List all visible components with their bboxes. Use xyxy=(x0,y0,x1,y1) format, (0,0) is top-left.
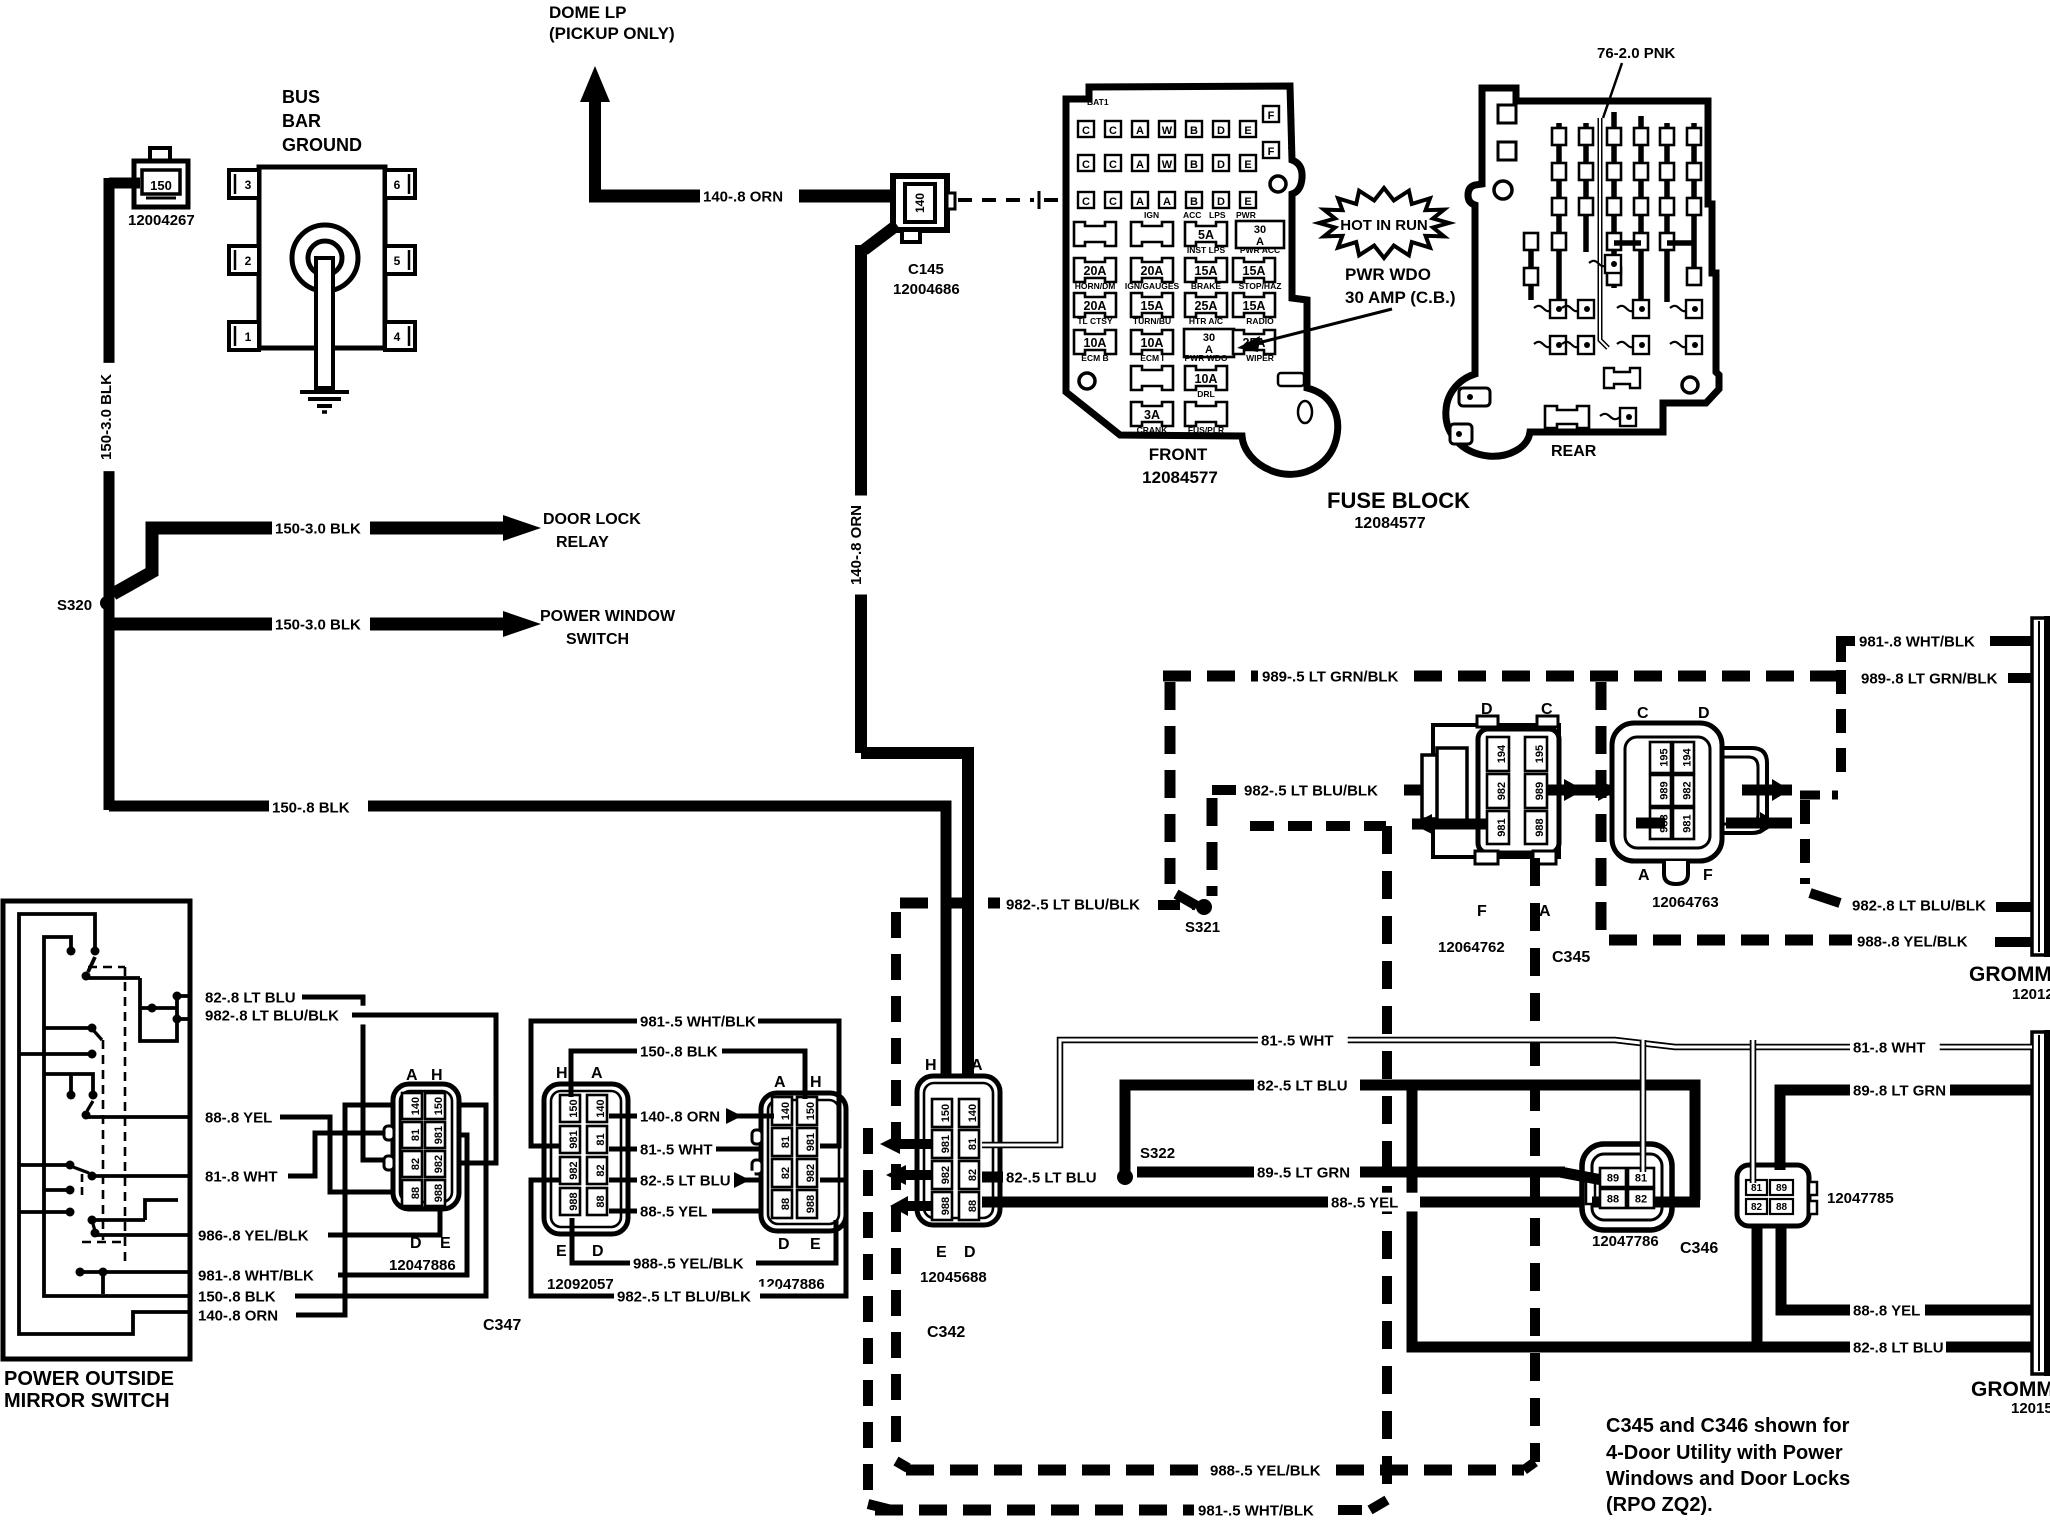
svg-text:Windows and Door Locks: Windows and Door Locks xyxy=(1606,1468,1850,1490)
label 89-.8 LT GRN xyxy=(1850,1081,1968,1100)
cell 981 12064762 xyxy=(1487,811,1509,844)
rear fuse clip c5r2 xyxy=(1634,163,1648,180)
cell 82 C346 xyxy=(1628,1189,1654,1208)
svg-text:982-.5 LT BLU/BLK: 982-.5 LT BLU/BLK xyxy=(1006,896,1140,913)
svg-text:82: 82 xyxy=(595,1164,607,1176)
wire 982-.5 LT BLU/BLK mid xyxy=(531,1180,614,1296)
svg-text:E: E xyxy=(556,1243,567,1260)
bus bar ground component body xyxy=(259,167,385,348)
svg-text:TL CTSY: TL CTSY xyxy=(1077,316,1113,326)
rear fuse clip c3r2 xyxy=(1579,163,1593,180)
cell 982 12064762 xyxy=(1487,774,1509,808)
svg-text:HTR A/C: HTR A/C xyxy=(1189,316,1223,326)
mirror switch contacts cluster 3 xyxy=(44,1074,93,1091)
svg-text:981-.5 WHT/BLK: 981-.5 WHT/BLK xyxy=(640,1013,756,1030)
rear fuse clip c4r1 xyxy=(1607,128,1621,145)
svg-text:A: A xyxy=(1539,903,1551,920)
svg-text:4: 4 xyxy=(394,330,401,344)
rear fuse clip c2r1 xyxy=(1552,128,1566,145)
svg-text:988: 988 xyxy=(805,1195,817,1213)
svg-text:81: 81 xyxy=(595,1133,607,1145)
label 150-3.0 BLK branch 1 xyxy=(272,519,380,538)
svg-text:30 AMP (C.B.): 30 AMP (C.B.) xyxy=(1345,288,1456,307)
rear fuse clip c4r2 xyxy=(1607,163,1621,180)
bus bar pin 6 xyxy=(385,170,415,198)
svg-text:D: D xyxy=(410,1235,422,1252)
dashed wire 989 top line xyxy=(1163,671,1258,682)
fuse block FRONT 12084577 outline xyxy=(1066,86,1338,474)
svg-text:BUS: BUS xyxy=(282,87,320,107)
svg-text:F: F xyxy=(1268,146,1275,158)
mirror switch contacts cluster 6 xyxy=(76,1268,85,1277)
svg-text:FUS/PLR: FUS/PLR xyxy=(1188,425,1224,435)
svg-text:988: 988 xyxy=(568,1192,580,1210)
cell 982 connector 12045688 C342 xyxy=(932,1161,952,1189)
mirror switch contacts cluster 1 xyxy=(91,947,100,956)
svg-text:12004686: 12004686 xyxy=(893,281,960,298)
cell 81 connector 12045688 C342 xyxy=(959,1130,979,1158)
svg-text:RELAY: RELAY xyxy=(556,534,609,551)
fuse 20A rowB xyxy=(1131,258,1173,282)
wire 82 up from S322 then right xyxy=(1125,1085,1254,1177)
rear fuse clip c6r4 xyxy=(1660,233,1674,250)
rear squiggle c6 xyxy=(1670,342,1689,347)
dashed inner box left edge x=1601 xyxy=(1596,682,1607,930)
wire 981 row left stub of 12064762 xyxy=(1412,819,1487,830)
fuse 10A DRL xyxy=(1185,366,1227,390)
svg-text:981-.8 WHT/BLK: 981-.8 WHT/BLK xyxy=(1859,633,1975,650)
svg-text:88-.8 YEL: 88-.8 YEL xyxy=(205,1109,272,1126)
cell 150 connector 12045688 C342 xyxy=(932,1099,952,1127)
svg-text:(PICKUP ONLY): (PICKUP ONLY) xyxy=(549,24,675,43)
connector 150 (12004267) xyxy=(150,148,170,165)
rear fuse clip c1r5 xyxy=(1524,268,1538,285)
svg-text:150: 150 xyxy=(805,1102,817,1120)
svg-text:GROMMET: GROMMET xyxy=(1969,963,2050,986)
cell 82 connector 12047886 right xyxy=(772,1159,792,1187)
arrowhead door lock relay xyxy=(503,515,541,541)
svg-text:150: 150 xyxy=(433,1097,445,1115)
svg-text:DOME LP: DOME LP xyxy=(549,3,626,22)
svg-text:988: 988 xyxy=(433,1184,445,1202)
rear fuse clip c4r4 xyxy=(1607,233,1621,250)
svg-text:F: F xyxy=(1703,867,1713,884)
rear fuse clip c7r5 xyxy=(1687,268,1701,285)
svg-text:12084577: 12084577 xyxy=(1354,515,1425,532)
fuse blank rowE xyxy=(1131,366,1173,390)
dashed wire 982-.5 LT BLU/BLK from S321 up to 12064762 xyxy=(1207,798,1218,896)
svg-text:988: 988 xyxy=(1534,818,1546,836)
connector C145 12004686 xyxy=(893,176,947,230)
ground symbol xyxy=(300,390,349,394)
cell 982 12064763 xyxy=(1673,775,1694,806)
rear pad c4 xyxy=(1633,336,1649,354)
svg-text:E: E xyxy=(936,1244,947,1261)
svg-text:982-.8 LT BLU/BLK: 982-.8 LT BLU/BLK xyxy=(1852,897,1986,914)
rear fuse clip c3r3 xyxy=(1579,198,1593,215)
rear fuse clip c2r3 xyxy=(1552,198,1566,215)
connector C347 12047886 xyxy=(393,1084,459,1209)
svg-text:150-3.0 BLK: 150-3.0 BLK xyxy=(275,520,361,537)
svg-text:REAR: REAR xyxy=(1551,443,1597,460)
svg-text:BAT1: BAT1 xyxy=(1087,97,1109,107)
svg-text:982: 982 xyxy=(433,1155,445,1173)
svg-text:CLOCK: CLOCK xyxy=(1286,117,1296,149)
svg-text:PWR: PWR xyxy=(1236,210,1256,220)
svg-text:25A: 25A xyxy=(1195,299,1218,313)
svg-text:82: 82 xyxy=(967,1169,979,1181)
svg-text:MIRROR SWITCH: MIRROR SWITCH xyxy=(4,1390,170,1412)
svg-text:81-.8 WHT: 81-.8 WHT xyxy=(205,1168,278,1185)
rear pad c2 xyxy=(1578,336,1594,354)
svg-text:150-.8 BLK: 150-.8 BLK xyxy=(272,799,350,816)
svg-text:982-.5 LT BLU/BLK: 982-.5 LT BLU/BLK xyxy=(1244,782,1378,799)
svg-text:RADIO: RADIO xyxy=(1246,316,1274,326)
rear fuse clip c5r1 xyxy=(1634,128,1648,145)
svg-text:H: H xyxy=(925,1057,937,1074)
wire 981-.5 WHT/BLK xyxy=(531,1021,637,1146)
svg-text:20A: 20A xyxy=(1084,299,1107,313)
cell 988 connector 12047886 right xyxy=(797,1190,817,1218)
svg-text:82-.8 LT BLU: 82-.8 LT BLU xyxy=(205,989,296,1006)
svg-text:WIPER: WIPER xyxy=(1246,353,1274,363)
svg-text:88: 88 xyxy=(595,1195,607,1207)
svg-text:LPS: LPS xyxy=(1209,210,1226,220)
svg-text:F: F xyxy=(1268,110,1275,122)
label 981-.5 WHT/BLK bottom xyxy=(1195,1501,1331,1520)
cell 989 12064763 xyxy=(1650,775,1671,806)
wire 988 left stub 12064763 xyxy=(1636,818,1665,829)
svg-text:194: 194 xyxy=(1681,747,1693,766)
svg-text:15A: 15A xyxy=(1195,264,1218,278)
svg-text:140-.8 ORN: 140-.8 ORN xyxy=(703,188,783,205)
dashed wire 982-.5 LT BLU/BLK left of S321 xyxy=(900,898,1000,909)
label 88-.5 YEL xyxy=(1328,1193,1418,1212)
cell 195 12064763 xyxy=(1650,742,1671,773)
wire 88 band through C346 xyxy=(1592,1197,1700,1208)
svg-text:INST LPS: INST LPS xyxy=(1187,245,1226,255)
dashed wire 981-.5 WHT/BLK bottom xyxy=(875,1505,1194,1516)
cell 140 connector C347 12047886 xyxy=(402,1093,422,1119)
dashed link C145 to fuse block xyxy=(958,198,1034,202)
connector 12047785 xyxy=(1737,1165,1809,1226)
svg-text:89-.8 LT GRN: 89-.8 LT GRN xyxy=(1853,1082,1946,1099)
fuse 25A rowC xyxy=(1185,293,1227,317)
bus bar pin 2 xyxy=(229,246,259,274)
svg-text:C145: C145 xyxy=(908,261,944,278)
cell 194 12064762 xyxy=(1487,737,1509,771)
cell 982 connector C347 12047886 xyxy=(425,1151,445,1177)
svg-text:C347: C347 xyxy=(483,1317,521,1334)
svg-text:H: H xyxy=(810,1074,822,1091)
svg-text:IGN/GAUGES: IGN/GAUGES xyxy=(1125,281,1180,291)
bus bar ground stem xyxy=(316,258,333,388)
rear pad c2 xyxy=(1578,300,1594,318)
cell 988 12064763 xyxy=(1650,808,1671,839)
svg-text:SWITCH: SWITCH xyxy=(566,631,629,648)
label 150-.8 BLK bottom xyxy=(195,1287,294,1306)
rear fuse clip c5r3 xyxy=(1634,198,1648,215)
cell 988 connector 12092057 xyxy=(560,1188,580,1215)
label 989-.5 LT GRN/BLK xyxy=(1259,667,1423,686)
svg-text:150-3.0 BLK: 150-3.0 BLK xyxy=(275,616,361,633)
svg-text:88: 88 xyxy=(1607,1193,1619,1205)
svg-text:D: D xyxy=(592,1243,604,1260)
svg-text:140-.8 ORN: 140-.8 ORN xyxy=(640,1108,720,1125)
svg-text:FUSE BLOCK: FUSE BLOCK xyxy=(1327,488,1470,513)
svg-text:140: 140 xyxy=(913,193,927,213)
fuse 15A rowB xyxy=(1185,258,1227,282)
svg-text:88: 88 xyxy=(1776,1202,1788,1213)
rear fuse clip c6r1 xyxy=(1660,128,1674,145)
dashed 981 link to vertical xyxy=(1250,821,1386,831)
wire 81 drop to 12047785 xyxy=(1750,1040,1757,1183)
wire 88-.8 YEL from 12047785 xyxy=(1781,1226,1850,1310)
svg-text:988: 988 xyxy=(940,1197,952,1215)
breaker 30A PWR WDO xyxy=(1184,329,1234,357)
cell 150 connector 12092057 xyxy=(560,1095,580,1122)
svg-text:S322: S322 xyxy=(1140,1145,1175,1162)
svg-text:20A: 20A xyxy=(1141,264,1164,278)
label 981-.8 WHT/BLK xyxy=(195,1266,331,1285)
svg-text:12047785: 12047785 xyxy=(1827,1190,1894,1207)
dashed 981 route right xyxy=(1836,670,1846,786)
fuse 3A CRANK xyxy=(1131,402,1173,426)
cell 88 connector 12045688 C342 xyxy=(959,1192,979,1220)
wire 982 exit xyxy=(177,1017,190,1021)
cell 150 connector 12047886 right xyxy=(797,1097,817,1125)
svg-text:150: 150 xyxy=(940,1104,952,1122)
fuse 10A ECM I xyxy=(1131,330,1173,354)
wire branch to door lock relay xyxy=(113,528,275,594)
cell 88 connector 12092057 xyxy=(587,1188,607,1215)
rear fuse clip c4r3 xyxy=(1607,198,1621,215)
svg-text:81: 81 xyxy=(1635,1172,1647,1184)
svg-text:STOP/HAZ: STOP/HAZ xyxy=(1239,281,1282,291)
svg-text:89: 89 xyxy=(1776,1183,1788,1194)
fuse blank FUS/PLR xyxy=(1185,402,1227,426)
F terminals xyxy=(1263,106,1279,122)
wire 88-.5 YEL xyxy=(982,1197,1328,1208)
bus bar pin 5 xyxy=(385,246,415,274)
cell 140 connector 12045688 C342 xyxy=(959,1099,979,1127)
label 988-.5 YEL/BLK bottom xyxy=(1207,1461,1343,1480)
svg-text:ECM B: ECM B xyxy=(1081,353,1108,363)
svg-text:C: C xyxy=(1541,701,1553,718)
svg-text:12047786: 12047786 xyxy=(1592,1233,1659,1250)
rear block bottom elements xyxy=(1459,388,1490,406)
svg-text:15A: 15A xyxy=(1243,299,1266,313)
label 982-.8 LT BLU/BLK xyxy=(202,1006,366,1025)
wire 989 stub to grommet xyxy=(2008,673,2032,683)
svg-text:10A: 10A xyxy=(1084,336,1107,350)
svg-text:150-3.0 BLK: 150-3.0 BLK xyxy=(98,374,115,460)
svg-text:W: W xyxy=(1162,125,1173,137)
wire 82-.5 LT BLU from pin to S322 xyxy=(982,1172,1004,1183)
wire 82 from 12047785 down to 82-.8 LT BLU xyxy=(1752,1226,1763,1347)
svg-text:A: A xyxy=(1163,196,1171,208)
dashed vertical C345 line xyxy=(1530,858,1540,1462)
svg-text:140: 140 xyxy=(967,1104,979,1122)
svg-text:12004267: 12004267 xyxy=(128,212,195,229)
rear fuse clip c3r1 xyxy=(1579,128,1593,145)
svg-text:6: 6 xyxy=(394,178,401,192)
wire 82 exit xyxy=(177,994,190,998)
wire 81-.5 WHT thin xyxy=(982,1040,2032,1145)
wire 150 from connector to main vertical xyxy=(109,178,140,189)
cell 88 connector C347 12047886 xyxy=(402,1180,422,1206)
svg-text:HOT IN RUN: HOT IN RUN xyxy=(1340,217,1428,234)
svg-text:E: E xyxy=(440,1235,451,1252)
mounting hole bottom left xyxy=(1079,373,1095,389)
dashed wire 988-.8 YEL/BLK xyxy=(1609,935,1852,946)
wire to dome lamp (arrow up) xyxy=(589,95,601,196)
svg-text:C345 and C346 shown for: C345 and C346 shown for xyxy=(1606,1415,1850,1437)
svg-text:981: 981 xyxy=(568,1130,580,1148)
arrow to PWR WDO breaker xyxy=(1250,309,1392,345)
cell 140 connector 12092057 xyxy=(587,1095,607,1122)
svg-text:88-.5 YEL: 88-.5 YEL xyxy=(1331,1194,1398,1211)
dashed box left edge down to S321 xyxy=(1165,682,1176,884)
svg-text:81: 81 xyxy=(1751,1183,1763,1194)
svg-text:E: E xyxy=(1244,159,1251,171)
svg-text:140-.8 ORN: 140-.8 ORN xyxy=(198,1307,278,1324)
svg-text:10A: 10A xyxy=(1195,372,1218,386)
cell 981 connector 12047886 right xyxy=(797,1128,817,1156)
svg-text:D: D xyxy=(964,1244,976,1261)
rear fuse clip c2r2 xyxy=(1552,163,1566,180)
fuse 25A WIPER xyxy=(1233,330,1275,354)
svg-text:BRAKE: BRAKE xyxy=(1191,281,1222,291)
fuse blank A1 xyxy=(1074,222,1116,246)
connector 12047886 right xyxy=(761,1093,846,1231)
rear pad c6 xyxy=(1686,300,1702,318)
svg-text:982-.5 LT BLU/BLK: 982-.5 LT BLU/BLK xyxy=(617,1288,751,1305)
rear block fuse bus columns xyxy=(1528,233,1534,300)
svg-text:A: A xyxy=(1136,125,1144,137)
label 150-3.0 BLK vertical xyxy=(101,363,121,471)
wire 81 exit xyxy=(92,1174,190,1178)
bus bar center circle xyxy=(292,225,358,291)
svg-text:5A: 5A xyxy=(1198,228,1214,242)
mirror switch contacts cluster 4 xyxy=(19,1163,68,1167)
connector 12064763 xyxy=(1722,748,1767,833)
svg-text:W: W xyxy=(1162,159,1173,171)
svg-text:81: 81 xyxy=(410,1129,422,1141)
svg-text:140: 140 xyxy=(780,1102,792,1120)
svg-text:120151: 120151 xyxy=(2011,1400,2050,1417)
svg-text:D: D xyxy=(1217,196,1225,208)
rear squiggle c2 xyxy=(1562,342,1581,347)
svg-text:C: C xyxy=(1109,159,1117,171)
wire 82 branch down to 82-.8 LT BLU xyxy=(1412,1085,1850,1347)
svg-text:10A: 10A xyxy=(1141,336,1164,350)
connector 12045688 C342 xyxy=(917,1076,1000,1225)
wire 76-2.0 PNK inside rear block xyxy=(1600,118,1608,348)
svg-text:981: 981 xyxy=(433,1126,445,1144)
rear squiggle c1 xyxy=(1534,342,1553,347)
mirror switch contacts cluster 5 xyxy=(19,1210,68,1214)
node S320 xyxy=(100,596,114,610)
svg-text:B: B xyxy=(1190,159,1198,171)
svg-text:1: 1 xyxy=(245,330,252,344)
svg-text:30: 30 xyxy=(1254,224,1266,236)
wire branch to power window switch xyxy=(110,618,275,631)
bus bar pin 3 xyxy=(229,170,259,198)
svg-text:982: 982 xyxy=(568,1161,580,1179)
cell 982 connector 12047886 right xyxy=(797,1159,817,1187)
rear fuse clip c2r4 xyxy=(1552,233,1566,250)
cell 81 connector 12092057 xyxy=(587,1126,607,1153)
label 140-.8 ORN top xyxy=(700,187,799,206)
rear squiggle c6 xyxy=(1670,306,1689,311)
fuse 20A rowC xyxy=(1074,293,1116,317)
svg-text:20A: 20A xyxy=(1084,264,1107,278)
cell 981 connector 12045688 C342 xyxy=(932,1130,952,1158)
svg-text:988-.5 YEL/BLK: 988-.5 YEL/BLK xyxy=(633,1255,744,1272)
wire 986 exit xyxy=(95,1233,190,1237)
svg-text:B: B xyxy=(1190,125,1198,137)
svg-text:C345: C345 xyxy=(1552,949,1590,966)
svg-text:2: 2 xyxy=(245,254,252,268)
svg-text:88-.5 YEL: 88-.5 YEL xyxy=(640,1203,707,1220)
rear fuse clip c6r2 xyxy=(1660,163,1674,180)
rear pad c4 xyxy=(1633,300,1649,318)
mounting hole top right xyxy=(1270,176,1286,192)
cell 140 connector 12047886 right xyxy=(772,1097,792,1125)
svg-text:C: C xyxy=(1082,196,1090,208)
label 982-.5 LT BLU/BLK mid xyxy=(1241,781,1405,800)
svg-text:DOOR LOCK: DOOR LOCK xyxy=(543,511,641,528)
svg-text:150-.8 BLK: 150-.8 BLK xyxy=(198,1288,276,1305)
svg-text:82-.5 LT BLU: 82-.5 LT BLU xyxy=(640,1172,731,1189)
cell 82 12047785 xyxy=(1746,1199,1767,1214)
svg-text:81-.8 WHT: 81-.8 WHT xyxy=(1853,1039,1926,1056)
svg-text:120122: 120122 xyxy=(2012,986,2050,1003)
svg-text:989-.5 LT GRN/BLK: 989-.5 LT GRN/BLK xyxy=(1262,668,1399,685)
cell 82 connector 12045688 C342 xyxy=(959,1161,979,1189)
cell 194 12064763 xyxy=(1673,742,1694,773)
svg-text:981-.5 WHT/BLK: 981-.5 WHT/BLK xyxy=(1198,1502,1314,1519)
fuse 15A rowB xyxy=(1233,258,1275,282)
svg-text:140: 140 xyxy=(595,1099,607,1117)
label 982-.5 LT BLU/BLK left xyxy=(1003,895,1167,914)
node S322 xyxy=(1117,1169,1133,1185)
fuse 15A rowC xyxy=(1131,293,1173,317)
wire 140-.8 ORN down from C145 xyxy=(864,225,897,250)
cell 88 connector 12047886 right xyxy=(772,1190,792,1218)
svg-text:194: 194 xyxy=(1496,744,1508,763)
label 988-.8 YEL/BLK xyxy=(1854,932,1990,951)
svg-text:982-.8 LT BLU/BLK: 982-.8 LT BLU/BLK xyxy=(205,1007,339,1024)
bus bar pin 1 xyxy=(229,322,259,350)
dashed vertical 981 route x=1387 xyxy=(1382,826,1392,1497)
fuse 5A INST LPS xyxy=(1185,222,1227,246)
svg-text:82-.8 LT BLU: 82-.8 LT BLU xyxy=(1853,1339,1944,1356)
svg-text:981: 981 xyxy=(805,1133,817,1151)
label 150-3.0 BLK branch 2 xyxy=(272,615,380,634)
svg-text:981: 981 xyxy=(1496,818,1508,836)
svg-text:C: C xyxy=(1109,125,1117,137)
rear pad c1 xyxy=(1550,300,1566,318)
svg-text:(RPO ZQ2).: (RPO ZQ2). xyxy=(1606,1494,1713,1516)
cell 81 connector 12047886 right xyxy=(772,1128,792,1156)
svg-text:ECM I: ECM I xyxy=(1140,353,1164,363)
svg-text:82: 82 xyxy=(780,1167,792,1179)
rear block top-left slots xyxy=(1498,105,1516,123)
svg-text:C342: C342 xyxy=(927,1324,965,1341)
grommet top xyxy=(2032,618,2049,955)
